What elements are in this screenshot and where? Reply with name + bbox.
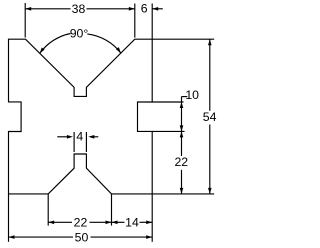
dimension 50 line: [9, 236, 74, 238]
dimension 4 tail left: [57, 136, 68, 138]
dimension 50 arrow left: [9, 235, 15, 239]
dimension 38 arrow left: [25, 7, 31, 11]
svg-text:54: 54: [203, 110, 217, 124]
dimension 6 tail line: [152, 8, 163, 10]
svg-text:4: 4: [76, 129, 83, 143]
dimension 10 stub: [182, 96, 188, 98]
body outline of V-block: [9, 39, 153, 194]
svg-text:10: 10: [185, 88, 199, 102]
dimension 4 tail right: [94, 136, 98, 138]
bottom groove right extension line: [111, 194, 113, 226]
dimension 4 arrow left: [67, 135, 73, 139]
svg-text:38: 38: [72, 2, 86, 16]
dimension 54 line: [209, 39, 211, 111]
dimension 38 line: [25, 8, 70, 10]
svg-text:90°: 90°: [70, 26, 89, 40]
svg-text:6: 6: [141, 1, 148, 15]
dimension 38 extension line left: [24, 3, 26, 38]
dimension 14 arrow left: [112, 221, 118, 225]
right notch top extension line: [152, 101, 183, 103]
angle 90 arrowhead left: [40, 47, 45, 53]
right notch bottom extension line: [152, 130, 184, 132]
dimension 22 right arrow down: [180, 188, 184, 194]
dimension 6 arrow: [152, 7, 158, 11]
dimension 54 arrow up: [208, 39, 212, 45]
svg-text:50: 50: [75, 230, 89, 244]
dimension 4 extension line left: [73, 132, 75, 152]
dimension 22 bottom arrow right: [106, 221, 112, 225]
dimension 38/6 shared extension line: [134, 4, 136, 38]
svg-text:14: 14: [125, 216, 139, 230]
dimension 22 bottom line: [48, 221, 72, 223]
dimension 4 arrow right: [88, 135, 94, 139]
dimension 50 arrow right: [146, 235, 152, 239]
svg-text:22: 22: [74, 216, 88, 230]
dimension 10 arrow up: [180, 102, 184, 108]
dimension 22 right line: [181, 131, 183, 156]
dimension 38 arrow right: [129, 7, 135, 11]
dimension 54 arrow down: [208, 188, 212, 194]
angle 90 arc left segment: [40, 34, 71, 54]
angle 90 arc right segment: [87, 34, 121, 53]
dimension 6 extension line right: [151, 4, 153, 39]
top edge extension line for 54: [152, 38, 214, 40]
left edge bottom extension line: [8, 194, 10, 242]
bottom groove left extension line: [47, 194, 49, 226]
bottom edge extension line for 54 and 22: [152, 193, 214, 195]
svg-text:22: 22: [174, 155, 188, 169]
dimension 22 right arrow up: [180, 131, 184, 137]
dimension 14 line: [112, 221, 125, 223]
dimension 14 arrow right: [146, 221, 152, 225]
dimension 4 extension line right: [85, 132, 87, 152]
dimension 10 arrow down: [180, 125, 184, 131]
dimension 22 bottom arrow left: [48, 221, 54, 225]
angle 90 arrowhead right: [116, 47, 121, 53]
right edge bottom extension line: [151, 194, 153, 242]
dimension 10 line: [181, 97, 183, 132]
